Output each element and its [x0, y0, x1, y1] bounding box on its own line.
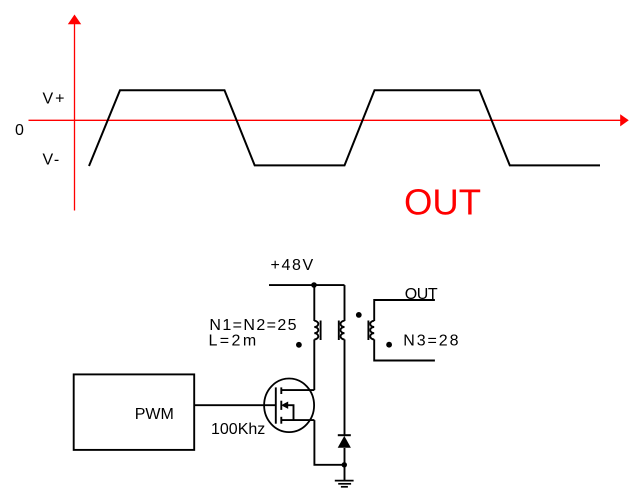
wire N2 bottom to diode cathode: [344, 339, 346, 435]
svg-text:100Khz: 100Khz: [211, 421, 265, 438]
junction dot at ground node: [342, 462, 347, 467]
inductor winding N2 (reset winding): [340, 321, 344, 340]
wire N2 top (rail corner down to winding): [344, 285, 346, 321]
wire diode anode to ground junction: [344, 448, 346, 481]
core bar of N3: [367, 321, 369, 341]
Q1 gate bar: [275, 387, 277, 423]
svg-text:V-: V-: [43, 152, 61, 169]
waveform trace: [89, 90, 600, 166]
axis horizontal (red X axis with arrow, node 0 line): [29, 114, 629, 126]
polarity dot N3: [386, 342, 392, 348]
junction dot on +48V rail: [311, 282, 317, 288]
Q1 drain lead: [281, 389, 314, 391]
svg-text:+48V: +48V: [271, 257, 315, 274]
core bar of N1: [320, 321, 322, 341]
Q1 channel segment source side: [280, 417, 282, 424]
svg-text:PWM: PWM: [135, 406, 174, 423]
transistor Q1 MOSFET body circle: [264, 379, 314, 433]
wire MOSFET source to ground junction: [314, 420, 344, 465]
inductor winding N3 (secondary): [370, 321, 374, 340]
polarity dot N2: [356, 312, 362, 318]
wire N1 bottom to MOSFET drain: [313, 339, 315, 390]
axis vertical (red Y axis with arrow): [68, 15, 81, 211]
svg-text:OUT: OUT: [405, 286, 438, 303]
Q1 source lead: [281, 419, 314, 421]
inductor winding N1 (primary): [314, 321, 318, 340]
svg-text:0: 0: [15, 122, 24, 139]
wire secondary top (OUT): [374, 300, 435, 321]
core bar of N2: [338, 321, 340, 341]
svg-text:N3=28: N3=28: [403, 332, 460, 349]
wire secondary bottom: [374, 339, 435, 360]
polarity dot N1: [296, 342, 302, 348]
Q1 channel segment middle: [280, 401, 282, 410]
Q1 channel segment drain side: [280, 387, 282, 394]
wire gate lead from PWM: [194, 404, 276, 406]
svg-text:L=2m: L=2m: [209, 332, 259, 349]
svg-text:OUT: OUT: [404, 182, 481, 223]
svg-text:V+: V+: [43, 91, 67, 108]
PWM box: [74, 374, 195, 450]
Q1 body arrow: [281, 402, 294, 421]
ground symbol: [335, 481, 354, 487]
diode D1 (freewheeling, cathode up): [338, 435, 351, 448]
wire N1 top (rail to winding): [313, 285, 315, 321]
wire +48V rail (top horizontal): [269, 284, 345, 286]
